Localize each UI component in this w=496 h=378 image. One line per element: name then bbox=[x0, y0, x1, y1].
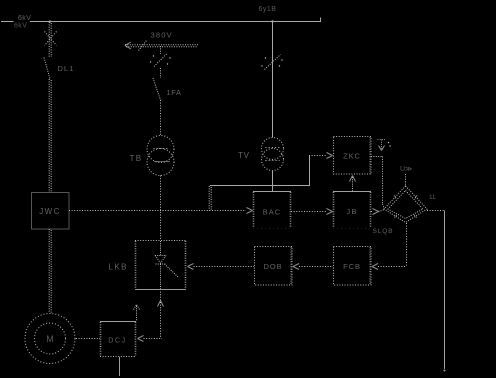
arrow into DOB bbox=[293, 264, 299, 270]
motor M inner circle bbox=[35, 323, 66, 354]
wire stub x210 bbox=[209, 186, 211, 211]
wire bridge top stub bbox=[405, 174, 407, 186]
wire LKB bottom vertical bbox=[160, 289, 162, 339]
transformer TV upper circle bbox=[262, 138, 284, 160]
wire bridge to FCB with arrow bbox=[378, 266, 406, 268]
wire right vertical down bbox=[444, 211, 446, 370]
svg-text:TV: TV bbox=[238, 151, 250, 160]
fuse slash on x272 bbox=[265, 55, 281, 70]
wire BAC to JB with arrow bbox=[291, 211, 327, 213]
wire DOB to LKB with arrow bbox=[194, 266, 255, 268]
svg-text:FCB: FCB bbox=[343, 262, 361, 271]
svg-text:SLQB: SLQB bbox=[373, 228, 394, 235]
bus 6kV bbox=[1, 18, 321, 22]
svg-text:JWC: JWC bbox=[39, 207, 61, 216]
box LKB bbox=[135, 241, 186, 290]
wire bus to breaker DL bbox=[49, 22, 51, 57]
box JB bbox=[333, 192, 371, 229]
svg-text:6y1B: 6y1B bbox=[259, 6, 277, 13]
box ZKC bbox=[334, 137, 372, 175]
wire bridge bottom vertical bbox=[406, 223, 408, 267]
symbol down arrow near ZKC output bbox=[378, 140, 386, 151]
node end dot bbox=[444, 370, 446, 372]
node bus junction x272 bbox=[271, 20, 273, 22]
wire bus to TV bbox=[272, 22, 274, 138]
svg-text:6kV: 6kV bbox=[14, 23, 27, 30]
svg-text:M: M bbox=[46, 334, 54, 344]
svg-text:BAC: BAC bbox=[263, 208, 281, 217]
arrow into FCB bbox=[372, 264, 378, 270]
svg-text:380V: 380V bbox=[151, 31, 173, 40]
box DCJ bbox=[100, 322, 136, 357]
wire breaker to JWC box bbox=[49, 79, 51, 192]
bus 380V dotted bbox=[125, 45, 198, 47]
transformer TB lower circle bbox=[147, 149, 174, 176]
wire TB bottom to LKB bbox=[160, 176, 162, 241]
wire JB to bridge with arrow bbox=[371, 210, 384, 212]
wire DCJ bottom bbox=[119, 357, 121, 376]
svg-text:TB: TB bbox=[130, 154, 143, 163]
wire TV bottom to BAC bbox=[272, 171, 274, 193]
wire FCB to DOB with arrow bbox=[299, 266, 333, 268]
wire 380V to fuse bbox=[160, 46, 162, 54]
svg-text:DL1: DL1 bbox=[58, 64, 75, 73]
rectifier bridge SLQB (diamond) bbox=[384, 186, 427, 223]
motor M outer ring bbox=[25, 314, 75, 364]
wire motor to DCJ bbox=[76, 338, 100, 340]
wire JB to ZKC stub with up arrow bbox=[352, 177, 354, 191]
wire LKB to DCJ line bbox=[144, 338, 163, 340]
svg-text:1L: 1L bbox=[429, 194, 437, 201]
svg-text:JB: JB bbox=[346, 207, 357, 216]
wire switch to TB bbox=[160, 100, 162, 136]
box JWC bbox=[32, 193, 70, 230]
transformer TB upper circle bbox=[147, 136, 174, 163]
svg-text:6kV: 6kV bbox=[18, 15, 31, 22]
arrow up on LKB bottom wire bbox=[158, 301, 164, 307]
arrow into LKB bbox=[188, 264, 194, 270]
switch DL slash bbox=[44, 58, 50, 80]
box FCB bbox=[334, 247, 372, 286]
svg-text:1FA: 1FA bbox=[167, 88, 182, 97]
svg-text:LKB: LKB bbox=[109, 263, 128, 272]
slash mark near 380V arrow bbox=[139, 41, 147, 51]
wire ZKC output to bridge bbox=[371, 157, 385, 210]
breaker X symbol bbox=[45, 32, 57, 46]
svg-text:DOB: DOB bbox=[264, 262, 283, 271]
wire fuse to switch bbox=[160, 68, 162, 78]
wire bridge right output bbox=[427, 210, 445, 212]
node bus junction x50 bbox=[49, 20, 51, 22]
svg-text:U≫: U≫ bbox=[400, 166, 412, 173]
transformer TV lower circle bbox=[262, 149, 284, 171]
thyristor inside LKB bbox=[155, 241, 178, 289]
wire JWC to BAC with arrow bbox=[69, 210, 246, 212]
wire into ZKC with arrow bbox=[309, 155, 326, 157]
svg-text:DCJ: DCJ bbox=[108, 338, 126, 345]
arrow into DCJ bbox=[138, 336, 144, 342]
box BAC bbox=[253, 192, 291, 229]
TB inner marks bbox=[154, 148, 169, 150]
wire JWC to motor bbox=[49, 229, 51, 313]
wire horizontal y185 bbox=[210, 185, 309, 187]
box DOB bbox=[255, 247, 293, 286]
wire x309 vertical bbox=[309, 155, 311, 186]
arrow left end 380V bbox=[125, 42, 131, 49]
wire DCJ top stub with up arrow bbox=[134, 305, 140, 322]
switch 1FA slash bbox=[153, 78, 161, 100]
svg-text:ZKC: ZKC bbox=[343, 152, 361, 161]
TV inner marks bbox=[266, 147, 280, 149]
fuse slash on x160 bbox=[154, 54, 167, 67]
